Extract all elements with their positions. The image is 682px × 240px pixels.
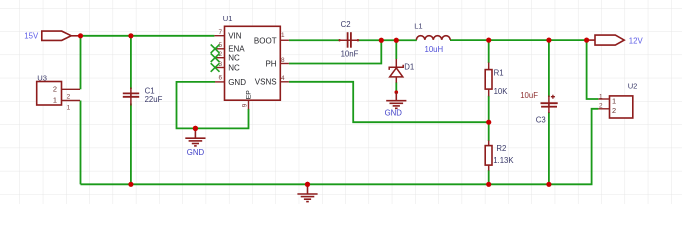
svg-text:10nF: 10nF bbox=[341, 50, 359, 59]
svg-text:L1: L1 bbox=[414, 21, 422, 30]
svg-text:U1: U1 bbox=[223, 14, 233, 23]
svg-text:1: 1 bbox=[67, 105, 71, 112]
svg-text:GND: GND bbox=[187, 148, 205, 157]
capacitor C1 bbox=[123, 86, 163, 105]
wire C1 column bottom bbox=[130, 104, 132, 185]
wire R2 bottom to rail bbox=[488, 170, 490, 184]
no-connect X pin3 bbox=[211, 63, 220, 72]
wire C2 to L1 bbox=[358, 39, 417, 41]
svg-text:1: 1 bbox=[599, 93, 603, 100]
svg-text:2: 2 bbox=[67, 93, 71, 100]
svg-text:10uH: 10uH bbox=[425, 45, 444, 54]
wire R1 top bbox=[488, 40, 490, 63]
node junction: feedback tap bbox=[486, 120, 491, 125]
pin 5 ENA bbox=[215, 42, 246, 54]
node junction: R2 bottom bbox=[486, 182, 491, 187]
svg-text:R2: R2 bbox=[496, 144, 506, 153]
wire D1 anode to GND bbox=[395, 82, 397, 92]
node junction: 15V flag tip bbox=[78, 33, 83, 38]
svg-text:R1: R1 bbox=[494, 68, 504, 77]
op-amp U1 (regulator IC body) bbox=[225, 26, 281, 100]
svg-text:2: 2 bbox=[599, 102, 603, 109]
svg-text:NC: NC bbox=[228, 63, 240, 72]
svg-text:6: 6 bbox=[218, 74, 222, 81]
capacitor C3 (polarized) bbox=[520, 91, 558, 125]
svg-text:NC: NC bbox=[228, 54, 240, 63]
svg-text:2: 2 bbox=[612, 106, 616, 115]
svg-text:7: 7 bbox=[218, 29, 222, 36]
svg-text:BOOT: BOOT bbox=[254, 36, 277, 45]
svg-text:GND: GND bbox=[385, 109, 403, 118]
svg-text:4: 4 bbox=[281, 75, 285, 82]
inductor L1 bbox=[414, 21, 450, 54]
svg-text:D1: D1 bbox=[404, 63, 414, 72]
svg-text:VIN: VIN bbox=[228, 32, 242, 41]
pin 3 NC bbox=[215, 61, 240, 72]
pin 1 BOOT bbox=[254, 32, 289, 45]
wire U3 pin1 to bottom rail bbox=[80, 101, 82, 185]
wire R1 bottom to R2 top bbox=[488, 96, 490, 141]
wire D1 drop bbox=[395, 40, 397, 59]
pin 7 VIN bbox=[214, 29, 241, 41]
svg-text:C3: C3 bbox=[536, 115, 546, 124]
svg-text:15V: 15V bbox=[24, 31, 39, 40]
svg-text:VSNS: VSNS bbox=[255, 78, 277, 87]
wire C3 column top bbox=[548, 40, 550, 97]
svg-text:9: 9 bbox=[241, 103, 248, 107]
capacitor C2 bbox=[338, 20, 359, 59]
svg-text:1: 1 bbox=[281, 32, 285, 39]
svg-text:1: 1 bbox=[612, 96, 616, 105]
node junction: C3 top bbox=[546, 38, 551, 43]
node junction: C1 top bbox=[128, 33, 133, 38]
diode D1 (schottky) bbox=[389, 59, 403, 83]
svg-text:10K: 10K bbox=[494, 87, 509, 96]
svg-text:8: 8 bbox=[281, 57, 285, 64]
node junction: U2 drop bbox=[584, 38, 589, 43]
svg-text:U2: U2 bbox=[628, 82, 638, 91]
ground symbol on bottom rail bbox=[297, 182, 317, 202]
wire VSNS feedback bbox=[289, 82, 489, 122]
connector U3 bbox=[37, 73, 80, 111]
ground symbol under U1 bbox=[185, 126, 205, 146]
node switch junction dot 1 bbox=[379, 38, 384, 43]
resistor R1 bbox=[485, 63, 508, 97]
svg-text:22uF: 22uF bbox=[145, 95, 163, 104]
pin 6 GND bbox=[215, 74, 246, 87]
ground symbol under D1 bbox=[386, 90, 406, 108]
wire 12V to U2 pin1 bbox=[587, 40, 599, 99]
power flag 15V bbox=[42, 31, 81, 40]
node switch junction dot 2 bbox=[394, 38, 399, 43]
svg-text:12V: 12V bbox=[629, 36, 644, 45]
wire 15V rail bbox=[81, 35, 215, 37]
power flag 12V bbox=[587, 35, 625, 45]
svg-text:ENA: ENA bbox=[228, 45, 245, 54]
pin 9 EP pad bbox=[241, 90, 252, 109]
pin 2 NC bbox=[215, 51, 240, 62]
pin 4 VSNS bbox=[255, 75, 289, 87]
svg-text:EP: EP bbox=[246, 90, 253, 100]
wire bottom GND rail bbox=[81, 109, 599, 185]
pin 8 PH bbox=[265, 57, 288, 68]
connector U2 bbox=[598, 82, 637, 119]
wire L1 to 12V rail bbox=[450, 39, 587, 41]
svg-text:1: 1 bbox=[53, 96, 57, 105]
wire PH up to switch node bbox=[289, 40, 381, 63]
svg-text:10uF: 10uF bbox=[520, 91, 538, 100]
node junction: C3 bottom bbox=[546, 182, 551, 187]
wire C1 column top bbox=[130, 36, 132, 89]
svg-text:PH: PH bbox=[265, 59, 276, 68]
node junction: R1 top bbox=[486, 38, 491, 43]
no-connect X pin5 bbox=[211, 45, 220, 54]
wire left drop to U3 pin2 bbox=[80, 36, 82, 90]
svg-text:U3: U3 bbox=[37, 73, 47, 82]
wire BOOT to C2 bbox=[289, 39, 340, 41]
wire C3 column bottom bbox=[548, 112, 550, 184]
svg-text:1.13K: 1.13K bbox=[493, 156, 514, 165]
node junction: C1 bottom bbox=[128, 182, 133, 187]
svg-text:C2: C2 bbox=[341, 20, 351, 29]
no-connect X pin2 bbox=[211, 53, 220, 62]
svg-text:GND: GND bbox=[228, 78, 246, 87]
wire U1 GND pin6 to pad pin9 bbox=[177, 82, 249, 128]
node junction: bottom rail GND bbox=[305, 182, 310, 187]
resistor R2 bbox=[485, 141, 514, 171]
svg-text:2: 2 bbox=[53, 84, 57, 93]
node junction: GND tap under U1 bbox=[193, 126, 198, 131]
